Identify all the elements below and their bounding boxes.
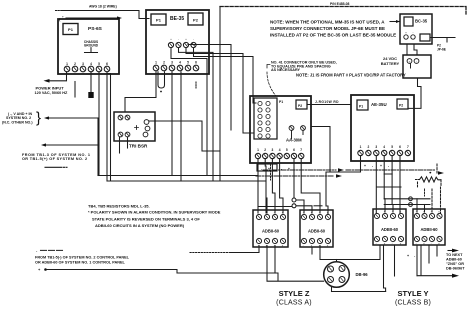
wire BE-35 4 to bus B (180, 72, 182, 181)
terminals of BC-35 (404, 31, 415, 40)
svg-text:AE-35U: AE-35U (371, 102, 387, 107)
jumper loop BE-35 t1-t2 (158, 72, 165, 88)
terminals TB1 of PS-6S (1-6) (64, 62, 110, 72)
svg-text:AA-30M: AA-30M (286, 138, 302, 143)
svg-text:TO NEXT: TO NEXT (446, 253, 463, 257)
polarity marks style Y (407, 254, 416, 258)
wire manifold to ADBII no3 t2 (384, 199, 386, 212)
wire TRI BSR bottom left down (119, 137, 121, 153)
svg-text:3: 3 (272, 148, 274, 152)
dashed wire to ADBII no4 t3 (431, 189, 433, 212)
connector P2 of AA-30M (296, 100, 307, 109)
svg-text:OR ADBII-60 OF SYSTEM NO. 1 CO: OR ADBII-60 OF SYSTEM NO. 1 CONTROL PANE… (35, 260, 125, 264)
svg-text:STYLE Y: STYLE Y (397, 289, 428, 298)
wire staircase below AE-35U (377, 174, 401, 187)
wire ADBII no4 b4 stub (436, 245, 438, 256)
connector P2 of AE-35U (397, 99, 408, 109)
wire ADBII no2 b-terminal to DB-96 top (320, 245, 380, 260)
wire AA-30M t6 to junction (293, 159, 295, 198)
svg-text:SUPERVISORY CONNECTOR MODEL JP: SUPERVISORY CONNECTOR MODEL JP-6E MUST B… (270, 26, 385, 31)
wire ADBII no4 b1 to next (416, 245, 418, 276)
svg-text:4: 4 (179, 61, 181, 65)
wire junction B to ADBII no2 t2 (296, 206, 312, 213)
svg-text:1: 1 (360, 145, 362, 149)
wire ADBII no3 b3 stub (394, 245, 396, 276)
svg-text:6: 6 (293, 148, 295, 152)
wire BC-35 to battery + (406, 44, 408, 55)
svg-text:}: } (36, 110, 41, 127)
wire AE-35U t5 to manifold 2 (391, 156, 393, 205)
svg-text:AWG 18 (2 WIRE): AWG 18 (2 WIRE) (89, 5, 117, 9)
wire ADBII no1 b3 to return line (274, 246, 276, 274)
connector P1 of BC-35 (404, 17, 413, 26)
svg-text:7: 7 (407, 145, 409, 149)
terminals TB2 of BE-35 (middle row) (168, 38, 196, 48)
dashed stub BE-35 t6 (195, 82, 197, 88)
svg-text:6: 6 (399, 145, 401, 149)
earth ground wire from terminal 4 (90, 72, 92, 92)
dashed arrow note to P1 strip (267, 72, 276, 96)
terminals of TRI BSR (118, 115, 150, 137)
svg-text:4: 4 (383, 145, 385, 149)
svg-text:P2: P2 (193, 18, 199, 23)
svg-text:1: 1 (155, 61, 157, 65)
svg-text:TRI BSR: TRI BSR (129, 144, 148, 149)
bracket tick of note (267, 65, 270, 69)
dashed stub lower left (41, 249, 65, 251)
svg-text:-: - (178, 38, 179, 41)
wire manifold to ADBII no4 t2 (424, 205, 426, 213)
wire bundle extra (188, 45, 231, 131)
svg-text:BC-35: BC-35 (415, 19, 428, 24)
left label supervisory input (2, 112, 33, 124)
wire AA-30M output to box2 (311, 127, 330, 173)
svg-text:STATE POLARITY IS REVERSED ON: STATE POLARITY IS REVERSED ON TERMINALS … (92, 216, 200, 221)
wire terminal 5 down to bus A (98, 72, 100, 176)
svg-text:ADBII-60: ADBII-60 (420, 227, 438, 232)
svg-text:5: 5 (286, 148, 288, 152)
wire stub with dots (45, 166, 60, 168)
svg-text:+: + (407, 254, 409, 258)
polarity marks below AA-30M (261, 167, 290, 171)
junction splice B (292, 204, 296, 208)
wire BE-35 TB2-3 to AA-30M P1 strip (186, 48, 254, 133)
wire BE-35 TB2-2 down right (179, 48, 214, 181)
wire ADBII no1 b1 return (267, 246, 324, 282)
wire AA-30M t3 down to ADBII no1 (272, 159, 275, 213)
arrow note to P1 of BC-35 (390, 21, 400, 23)
connector P2 of BC-35 (420, 34, 430, 41)
wire junction B extension (314, 205, 322, 207)
svg-text:FROM TB1-3 OF SYSTEM NO. 1: FROM TB1-3 OF SYSTEM NO. 1 (22, 153, 90, 157)
wire to ADBII-60 no1 terminal (231, 246, 259, 253)
note supervisory connector (3 lines) (270, 20, 396, 38)
svg-text:(CLASS B): (CLASS B) (395, 300, 431, 307)
wire terminal 6 down to bus B (106, 72, 108, 181)
svg-text:-: - (303, 245, 304, 248)
svg-text:-: - (261, 167, 262, 171)
connector P1 of BE-35 (151, 14, 166, 25)
amplifier module AA-30M (250, 96, 311, 163)
wire AE-35U t3 to ADBII no3 t1 (375, 156, 377, 213)
svg-text:AS NECESSARY: AS NECESSARY (271, 68, 300, 72)
bus B horizontal (107, 180, 266, 182)
dash-dot supervised circuit line 1 (263, 169, 336, 171)
svg-text:P2: P2 (399, 104, 403, 108)
wire TRI BSR bottom down (127, 137, 129, 148)
svg-text:+: + (380, 164, 382, 168)
wire AC line PS-6S to BE-35 P1 (62, 11, 149, 19)
connector P2 of BE-35 (188, 13, 203, 25)
connector strip P1 of AA-30M (254, 98, 277, 139)
svg-text:2: 2 (368, 145, 370, 149)
svg-text:P1: P1 (68, 27, 74, 32)
svg-text:NOTE: J1 IS FROM PART # PLAST: NOTE: J1 IS FROM PART # PLAST VDC/RP AT … (296, 73, 406, 78)
svg-text:J-RG10W RD: J-RG10W RD (315, 100, 339, 104)
dashed leads of resistor (436, 164, 438, 173)
svg-text:4: 4 (279, 148, 281, 152)
dashed supervision wire to BC-35 (220, 7, 466, 15)
svg-text:-: - (416, 59, 417, 63)
svg-text:3: 3 (171, 61, 173, 65)
svg-text:-: - (193, 38, 194, 41)
wire AE-35U t6 to ADBII no3 t4 (399, 156, 401, 213)
wire dotted segment style Z (190, 252, 231, 254)
svg-text:5: 5 (391, 145, 393, 149)
wire BE-35 3 to bus A (171, 72, 173, 176)
dashed wire resistor to ADBII no4 (440, 187, 442, 213)
module BC-35 (400, 14, 432, 44)
wire AA-30M t7 to ADBII no2 t3 (301, 159, 320, 213)
terminals TB1 of AE-35U (1-7) (358, 145, 411, 156)
wire junction A to ADBII no2 t1 (296, 200, 304, 213)
svg-text:+: + (409, 59, 411, 63)
wire power input terminal 1 (47, 72, 67, 81)
wire manifold to ADBII no3 t3 (392, 205, 394, 213)
relay module TRI BSR (114, 112, 155, 141)
junction splice C (409, 197, 413, 201)
svg-text:2: 2 (264, 148, 266, 152)
note TB4 TB5 resistors (4 lines) (88, 204, 221, 229)
chassis ground symbol (85, 48, 98, 53)
wire manifold to ADBII no4 t1 (416, 199, 418, 212)
dashed stub below AA-30M (270, 164, 272, 180)
svg-text:1: 1 (66, 62, 68, 66)
wire BE-35 TB2-1 down right (171, 48, 207, 176)
cable AA-30M P2 to AE-35U P1 (307, 104, 351, 106)
svg-text:P1: P1 (359, 105, 363, 109)
audio module AE-35U (351, 95, 414, 161)
svg-text:ADBII-60: ADBII-60 (446, 258, 462, 262)
svg-text:JP-6E: JP-6E (437, 48, 446, 52)
terminals TB1 of BE-35 (1-6) (153, 61, 199, 71)
svg-text:+: + (405, 31, 407, 35)
junction splice A (292, 198, 296, 202)
svg-text:6: 6 (106, 62, 108, 66)
svg-text:-: - (258, 245, 259, 248)
dash-dot supervised circuit line 2 (256, 175, 334, 177)
svg-text:+: + (62, 14, 64, 18)
svg-text:P1: P1 (279, 100, 283, 104)
svg-text:2: 2 (74, 62, 76, 66)
wire stub terminal 2 (74, 82, 76, 98)
wire ADBII no4 b2 to next (417, 245, 453, 276)
speaker circuit module ADBII-60 no4 (413, 209, 445, 246)
wire AA-30M t1 down to ADBII no1 (257, 159, 259, 213)
note above AA-30M (3 lines) (271, 60, 337, 72)
label to next appliance (446, 253, 465, 271)
svg-text:ADBII-60: ADBII-60 (262, 229, 280, 234)
wire with arrow under AC line (66, 17, 119, 19)
svg-text:(CLASS A): (CLASS A) (276, 300, 312, 307)
svg-text:6: 6 (195, 61, 197, 65)
svg-text:ADBII-60: ADBII-60 (381, 227, 399, 232)
svg-text:* POLARITY SHOWN IN ALARM COND: * POLARITY SHOWN IN ALARM CONDITION. IN … (88, 210, 221, 215)
svg-text:DB-96: DB-96 (356, 272, 369, 277)
svg-text:+: + (364, 164, 366, 168)
svg-text:STYLE Z: STYLE Z (279, 289, 310, 298)
junction splice D (409, 203, 413, 207)
wire TRI BSR right to bus B (149, 121, 220, 181)
wire ADBII no4 b3 stub (428, 245, 430, 263)
terminals TB1 of AA-30M (1-7) (255, 148, 304, 159)
wire ADBII no3 b1 down (384, 245, 386, 292)
speaker circuit module ADBII-60 no1 (253, 210, 288, 248)
svg-text:OR TB1-5(+) OF SYSTEM NO. 2: OR TB1-5(+) OF SYSTEM NO. 2 (22, 157, 87, 161)
svg-text:TB4, TB5 RESISTORS MDL L-35.: TB4, TB5 RESISTORS MDL L-35. (88, 204, 150, 209)
polarity marks below AE-35U (364, 164, 389, 168)
bus A horizontal (98, 175, 258, 177)
wire P2 to JP-6E (430, 38, 455, 43)
svg-text:P/N E485-08: P/N E485-08 (330, 2, 350, 6)
speaker circuit module ADBII-60 no2 (300, 210, 333, 248)
svg-text:5: 5 (98, 62, 100, 66)
svg-text:-: - (372, 164, 373, 168)
end of line resistor R-EOL (420, 177, 442, 182)
svg-text:P2: P2 (298, 104, 302, 108)
wire across box tops (258, 206, 292, 208)
svg-text:1: 1 (257, 148, 259, 152)
svg-text:4: 4 (90, 62, 92, 66)
svg-text:3: 3 (375, 145, 377, 149)
svg-text:3: 3 (82, 62, 84, 66)
svg-text:-: - (431, 243, 432, 246)
speaker circuit module ADBII-60 no3 (373, 209, 406, 246)
wire terminal 6 branch down (107, 74, 111, 182)
svg-text:P1: P1 (156, 18, 162, 23)
wire ADBII no2 b2 stub (311, 248, 313, 255)
wire AA-30M t4 down to ADBII no1 (280, 159, 283, 213)
wire AE-35U t1 to style Z line (326, 156, 361, 214)
svg-text:PS-6S: PS-6S (88, 26, 103, 32)
manifold wire 1 style Y (384, 198, 430, 200)
horn DB-96 (324, 262, 350, 288)
svg-text:GROUND: GROUND (84, 44, 99, 48)
svg-text:-: - (392, 243, 393, 246)
test point terminals of AA-30M (289, 126, 305, 139)
connector P1 of PS-6S (63, 24, 78, 35)
svg-text:NOTE: WHEN THE OPTIONAL MM-35: NOTE: WHEN THE OPTIONAL MM-35 IS NOT USE… (270, 20, 385, 25)
earth ground block (88, 92, 93, 98)
svg-text:2: 2 (163, 61, 165, 65)
battery BT1 (403, 55, 431, 78)
svg-text:-: - (388, 164, 389, 168)
dashed wire DB-96 bottom to ADBII no3 (331, 287, 333, 292)
svg-text:DB-96/96T: DB-96/96T (446, 267, 465, 271)
svg-text:INSTALLED AT P2 OF THE BC-35 O: INSTALLED AT P2 OF THE BC-35 OR LAST BE-… (270, 33, 396, 38)
stub DB-96 top (336, 260, 338, 262)
connector block below AA-30M (257, 164, 277, 171)
module BE-35 (146, 10, 209, 74)
wire BE-35 TB2-4 to AA-30M P1 strip (194, 48, 257, 103)
dashed stub near manifold (424, 189, 426, 196)
wire arrow to bus at y145 (43, 144, 99, 146)
wire BE-35 1 to TRI BSR (125, 72, 156, 112)
manifold wire 2 style Y (384, 204, 430, 206)
module PS-6S (58, 19, 119, 74)
svg-text:7: 7 (300, 148, 302, 152)
svg-text:BE-35: BE-35 (170, 16, 184, 22)
wire AE-35U t4 to manifold 1 (383, 156, 385, 199)
wire supervision drop (219, 7, 221, 151)
svg-text:-: - (376, 243, 377, 246)
wire arrow to bus at y118 (46, 117, 98, 119)
wire AE-35U P2 to battery minus (408, 78, 421, 108)
svg-text:5: 5 (187, 61, 189, 65)
svg-text:BATTERY: BATTERY (381, 61, 400, 66)
svg-text:FROM TB1-5(-) OF SYSTEM NO. 2: FROM TB1-5(-) OF SYSTEM NO. 2 CONTROL PA… (35, 255, 130, 259)
svg-text:ADBII-60: ADBII-60 (308, 229, 326, 234)
wire BC-35 to battery - (414, 44, 417, 55)
svg-text:-: - (413, 31, 414, 35)
svg-text:(N.C. OTHER NO.): (N.C. OTHER NO.) (2, 120, 33, 124)
svg-text:ADBII-60 CIRCUITS IN A SYSTEM: ADBII-60 CIRCUITS IN A SYSTEM (NO POWER) (95, 223, 185, 228)
connector P1 of AE-35U (357, 100, 368, 110)
svg-text:120 VAC, 50/60 HZ: 120 VAC, 50/60 HZ (35, 91, 69, 95)
wire AA-30M t2 down to ADBII no1 (265, 159, 267, 213)
svg-text:"ZNS" OR: "ZNS" OR (446, 262, 464, 266)
